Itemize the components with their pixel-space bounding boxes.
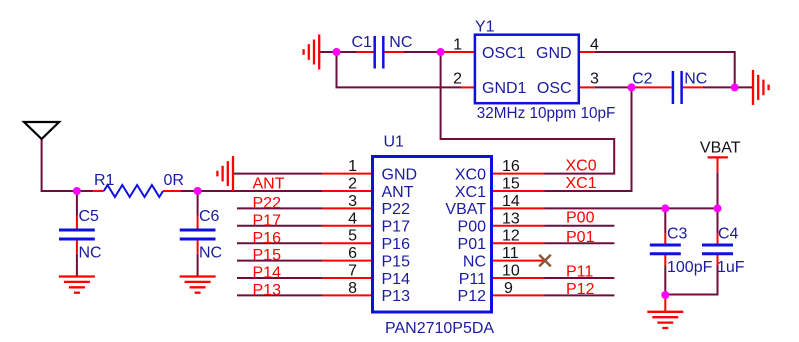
svg-text:P11: P11 — [459, 271, 486, 288]
svg-text:VBAT: VBAT — [700, 140, 741, 157]
svg-text:7: 7 — [348, 263, 357, 280]
svg-text:C4: C4 — [718, 226, 739, 243]
svg-text:ANT: ANT — [382, 184, 414, 201]
svg-text:NC: NC — [684, 71, 707, 88]
svg-text:C1: C1 — [352, 34, 373, 51]
svg-text:XC1: XC1 — [566, 175, 597, 192]
svg-text:C3: C3 — [667, 226, 688, 243]
svg-text:U1: U1 — [384, 134, 405, 151]
svg-text:P16: P16 — [253, 230, 282, 247]
svg-text:P22: P22 — [253, 195, 282, 212]
svg-text:15: 15 — [502, 176, 520, 193]
svg-text:OSC: OSC — [537, 80, 572, 97]
svg-text:P14: P14 — [253, 265, 282, 282]
svg-text:P12: P12 — [566, 281, 595, 298]
svg-text:3: 3 — [348, 193, 357, 210]
svg-text:12: 12 — [502, 228, 520, 245]
svg-text:XC1: XC1 — [455, 184, 486, 201]
svg-text:P16: P16 — [382, 236, 411, 253]
svg-text:P14: P14 — [382, 271, 411, 288]
svg-text:OSC1: OSC1 — [482, 45, 526, 62]
svg-text:P12: P12 — [458, 288, 487, 305]
svg-text:P22: P22 — [382, 201, 411, 218]
svg-text:0R: 0R — [164, 172, 184, 189]
svg-text:NC: NC — [463, 253, 486, 270]
svg-text:13: 13 — [502, 210, 520, 227]
svg-text:P15: P15 — [382, 253, 411, 270]
svg-text:NC: NC — [79, 245, 102, 262]
svg-text:ANT: ANT — [253, 176, 285, 193]
svg-text:P00: P00 — [566, 210, 595, 227]
svg-text:R1: R1 — [94, 172, 115, 189]
svg-text:P13: P13 — [253, 282, 282, 299]
svg-text:GND: GND — [536, 45, 572, 62]
svg-text:P00: P00 — [458, 219, 487, 236]
svg-text:P01: P01 — [458, 236, 487, 253]
svg-text:16: 16 — [502, 158, 520, 175]
svg-text:Y1: Y1 — [475, 19, 495, 36]
svg-text:P15: P15 — [253, 247, 282, 264]
svg-text:8: 8 — [348, 280, 357, 297]
svg-text:XC0: XC0 — [455, 166, 486, 183]
svg-text:1: 1 — [348, 158, 357, 175]
svg-text:NC: NC — [199, 245, 222, 262]
svg-text:C5: C5 — [79, 208, 100, 225]
svg-text:4: 4 — [590, 37, 599, 54]
svg-text:14: 14 — [502, 193, 520, 210]
svg-text:P01: P01 — [566, 229, 595, 246]
svg-text:1uF: 1uF — [717, 259, 745, 276]
svg-text:1: 1 — [453, 37, 462, 54]
svg-text:4: 4 — [348, 210, 357, 227]
svg-text:GND1: GND1 — [482, 80, 527, 97]
svg-text:P11: P11 — [566, 264, 593, 281]
svg-text:C6: C6 — [199, 208, 220, 225]
svg-text:2: 2 — [453, 71, 462, 88]
svg-text:P17: P17 — [382, 219, 411, 236]
svg-text:11: 11 — [502, 245, 519, 262]
svg-text:XC0: XC0 — [566, 158, 597, 175]
svg-text:C2: C2 — [632, 71, 653, 88]
svg-text:10: 10 — [502, 263, 520, 280]
svg-text:5: 5 — [348, 228, 357, 245]
svg-text:6: 6 — [348, 245, 357, 262]
svg-text:VBAT: VBAT — [445, 201, 486, 218]
svg-text:PAN2710P5DA: PAN2710P5DA — [385, 320, 494, 337]
svg-text:GND: GND — [382, 166, 418, 183]
svg-text:32MHz 10ppm 10pF: 32MHz 10ppm 10pF — [477, 105, 616, 122]
svg-text:P13: P13 — [382, 288, 411, 305]
svg-text:9: 9 — [504, 280, 513, 297]
svg-text:2: 2 — [348, 176, 357, 193]
svg-text:NC: NC — [389, 34, 412, 51]
svg-text:P17: P17 — [253, 213, 282, 230]
svg-text:3: 3 — [590, 71, 599, 88]
svg-text:100pF: 100pF — [667, 259, 713, 276]
